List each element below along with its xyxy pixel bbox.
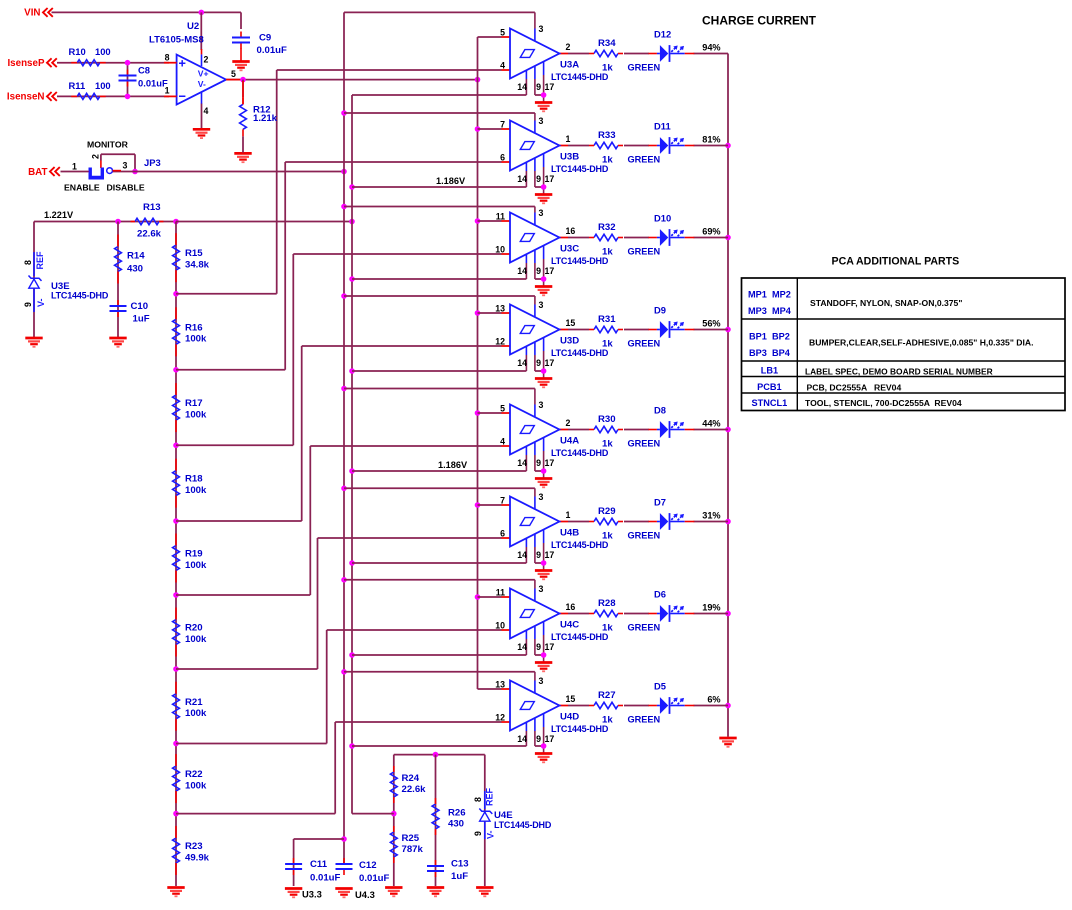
svg-text:LTC1445-DHD: LTC1445-DHD: [551, 256, 609, 266]
svg-text:9: 9: [23, 302, 33, 307]
svg-text:D7: D7: [654, 497, 666, 508]
svg-text:1: 1: [566, 134, 571, 144]
svg-text:V-: V-: [36, 298, 46, 307]
svg-text:R14: R14: [127, 251, 145, 262]
svg-text:R15: R15: [185, 248, 203, 259]
svg-text:1k: 1k: [602, 531, 613, 542]
svg-text:PCB, DC2555A REV04: PCB, DC2555A REV04: [807, 383, 902, 393]
svg-text:R27: R27: [598, 690, 616, 701]
svg-text:C8: C8: [138, 65, 150, 76]
svg-text:LTC1445-DHD: LTC1445-DHD: [51, 291, 109, 301]
svg-text:11: 11: [496, 588, 505, 598]
svg-text:DISABLE: DISABLE: [107, 183, 145, 193]
svg-text:V-: V-: [198, 79, 206, 89]
svg-text:R30: R30: [598, 414, 616, 425]
svg-text:GREEN: GREEN: [628, 439, 661, 449]
svg-text:ENABLE: ENABLE: [64, 183, 100, 193]
svg-text:GREEN: GREEN: [628, 63, 661, 73]
svg-text:R32: R32: [598, 222, 616, 233]
svg-text:2: 2: [566, 42, 571, 52]
svg-text:14: 14: [517, 174, 527, 184]
svg-text:C11: C11: [310, 859, 328, 870]
svg-text:1k: 1k: [602, 439, 613, 450]
svg-text:9: 9: [536, 642, 541, 652]
svg-text:11: 11: [496, 212, 505, 222]
svg-text:JP3: JP3: [144, 157, 161, 168]
svg-text:12: 12: [495, 713, 505, 723]
svg-text:44%: 44%: [702, 419, 720, 429]
svg-text:GREEN: GREEN: [628, 623, 661, 633]
svg-text:17: 17: [545, 550, 555, 560]
svg-text:GREEN: GREEN: [628, 715, 661, 725]
svg-text:9: 9: [473, 831, 483, 836]
svg-text:R23: R23: [185, 841, 203, 852]
svg-text:7: 7: [500, 120, 505, 130]
svg-text:R34: R34: [598, 38, 616, 49]
svg-text:100k: 100k: [185, 708, 207, 719]
svg-text:R21: R21: [185, 697, 203, 708]
svg-text:17: 17: [545, 734, 555, 744]
svg-text:U3A: U3A: [560, 60, 579, 71]
svg-text:14: 14: [517, 458, 527, 468]
svg-text:49.9k: 49.9k: [185, 852, 210, 863]
svg-text:8: 8: [165, 53, 170, 63]
svg-text:R31: R31: [598, 314, 616, 325]
svg-text:0.01uF: 0.01uF: [257, 45, 288, 56]
svg-text:5: 5: [500, 28, 505, 38]
svg-text:15: 15: [566, 318, 576, 328]
svg-text:6: 6: [500, 529, 505, 539]
svg-text:14: 14: [517, 358, 527, 368]
svg-text:100k: 100k: [185, 634, 207, 645]
svg-text:9: 9: [536, 734, 541, 744]
svg-text:4: 4: [204, 106, 209, 116]
svg-text:34.8k: 34.8k: [185, 259, 210, 270]
svg-text:1.221V: 1.221V: [44, 210, 74, 220]
svg-text:3: 3: [539, 208, 544, 218]
svg-text:100k: 100k: [185, 409, 207, 420]
svg-text:U4D: U4D: [560, 712, 579, 723]
svg-text:1uF: 1uF: [451, 871, 468, 882]
svg-text:LT6105-MS8: LT6105-MS8: [149, 35, 204, 46]
svg-text:R17: R17: [185, 398, 203, 409]
svg-text:R19: R19: [185, 549, 203, 560]
svg-text:0.01uF: 0.01uF: [310, 873, 341, 884]
svg-text:U4.3: U4.3: [355, 889, 375, 900]
svg-text:GREEN: GREEN: [628, 247, 661, 257]
svg-text:R25: R25: [402, 833, 420, 844]
svg-text:3: 3: [539, 676, 544, 686]
svg-text:D8: D8: [654, 405, 666, 416]
svg-text:1.186V: 1.186V: [438, 460, 468, 470]
svg-text:13: 13: [495, 304, 505, 314]
svg-text:94%: 94%: [702, 43, 720, 53]
svg-text:14: 14: [517, 82, 527, 92]
svg-text:BAT: BAT: [28, 167, 47, 178]
svg-text:6%: 6%: [707, 695, 720, 705]
svg-text:LTC1445-DHD: LTC1445-DHD: [551, 724, 609, 734]
svg-text:REF: REF: [35, 251, 45, 270]
svg-text:22.6k: 22.6k: [402, 784, 427, 795]
svg-text:9: 9: [536, 82, 541, 92]
svg-text:16: 16: [566, 602, 576, 612]
svg-text:9: 9: [536, 358, 541, 368]
svg-text:CHARGE CURRENT: CHARGE CURRENT: [702, 14, 817, 28]
svg-text:STANDOFF, NYLON, SNAP-ON,0.375: STANDOFF, NYLON, SNAP-ON,0.375": [810, 298, 962, 308]
svg-text:31%: 31%: [702, 511, 720, 521]
svg-text:1k: 1k: [602, 623, 613, 634]
svg-text:LTC1445-DHD: LTC1445-DHD: [551, 632, 609, 642]
svg-text:17: 17: [545, 358, 555, 368]
svg-text:C9: C9: [259, 33, 271, 44]
svg-text:U4B: U4B: [560, 528, 579, 539]
svg-text:0.01uF: 0.01uF: [359, 873, 390, 884]
svg-text:D10: D10: [654, 213, 671, 224]
svg-text:BP3 BP4: BP3 BP4: [749, 348, 791, 358]
svg-text:4: 4: [500, 61, 505, 71]
svg-text:1.21k: 1.21k: [253, 113, 278, 124]
svg-text:69%: 69%: [702, 227, 720, 237]
svg-text:IsenseN: IsenseN: [7, 92, 45, 103]
svg-text:3: 3: [539, 300, 544, 310]
svg-text:R24: R24: [402, 773, 420, 784]
svg-text:D12: D12: [654, 29, 671, 40]
svg-text:C13: C13: [451, 859, 469, 870]
svg-text:100k: 100k: [185, 780, 207, 791]
svg-text:15: 15: [566, 694, 576, 704]
svg-text:R18: R18: [185, 474, 203, 485]
svg-text:D9: D9: [654, 305, 666, 316]
svg-text:5: 5: [500, 404, 505, 414]
svg-text:10: 10: [495, 621, 505, 631]
svg-text:100k: 100k: [185, 485, 207, 496]
svg-text:1: 1: [566, 510, 571, 520]
svg-text:R22: R22: [185, 769, 203, 780]
svg-text:1k: 1k: [602, 715, 613, 726]
svg-text:14: 14: [517, 266, 527, 276]
svg-text:56%: 56%: [702, 319, 720, 329]
svg-text:100k: 100k: [185, 560, 207, 571]
svg-text:LTC1445-DHD: LTC1445-DHD: [494, 820, 552, 830]
svg-text:787k: 787k: [402, 844, 424, 855]
svg-text:17: 17: [545, 174, 555, 184]
svg-text:8: 8: [473, 797, 483, 802]
svg-text:V+: V+: [198, 69, 209, 79]
svg-text:U3D: U3D: [560, 336, 579, 347]
svg-text:1k: 1k: [602, 339, 613, 350]
svg-text:1: 1: [72, 162, 77, 172]
svg-text:IsenseP: IsenseP: [7, 58, 45, 69]
svg-text:R16: R16: [185, 322, 203, 333]
svg-text:0.01uF: 0.01uF: [138, 78, 168, 89]
svg-text:LTC1445-DHD: LTC1445-DHD: [551, 72, 609, 82]
svg-text:14: 14: [517, 550, 527, 560]
svg-text:GREEN: GREEN: [628, 155, 661, 165]
svg-text:R13: R13: [143, 202, 161, 213]
svg-text:1k: 1k: [602, 63, 613, 74]
svg-text:19%: 19%: [702, 603, 720, 613]
svg-text:STNCL1: STNCL1: [752, 398, 788, 408]
svg-text:22.6k: 22.6k: [137, 229, 162, 240]
svg-text:3: 3: [539, 400, 544, 410]
svg-text:9: 9: [536, 266, 541, 276]
svg-text:1.186V: 1.186V: [436, 176, 466, 186]
svg-text:C10: C10: [131, 301, 149, 312]
svg-text:LTC1445-DHD: LTC1445-DHD: [551, 448, 609, 458]
svg-text:C12: C12: [359, 860, 377, 871]
svg-text:6: 6: [500, 153, 505, 163]
svg-text:D6: D6: [654, 589, 666, 600]
svg-text:U3C: U3C: [560, 244, 579, 255]
svg-text:4: 4: [500, 437, 505, 447]
svg-text:81%: 81%: [702, 135, 720, 145]
svg-text:REF: REF: [485, 787, 495, 806]
svg-text:100: 100: [95, 46, 111, 57]
svg-text:R29: R29: [598, 506, 616, 517]
svg-text:VIN: VIN: [24, 8, 40, 19]
svg-text:R20: R20: [185, 623, 203, 634]
svg-text:100k: 100k: [185, 334, 207, 345]
svg-text:BP1 BP2: BP1 BP2: [749, 332, 790, 342]
svg-text:R11: R11: [69, 80, 86, 91]
svg-text:9: 9: [536, 550, 541, 560]
svg-text:2: 2: [204, 55, 209, 65]
svg-text:MONITOR: MONITOR: [87, 140, 129, 150]
svg-text:LABEL SPEC, DEMO BOARD SERIAL: LABEL SPEC, DEMO BOARD SERIAL NUMBER: [805, 367, 993, 377]
svg-text:9: 9: [536, 174, 541, 184]
svg-text:3: 3: [539, 116, 544, 126]
svg-text:MP1 MP2: MP1 MP2: [748, 290, 791, 300]
svg-text:LTC1445-DHD: LTC1445-DHD: [551, 540, 609, 550]
svg-text:D11: D11: [654, 121, 671, 132]
svg-text:LTC1445-DHD: LTC1445-DHD: [551, 348, 609, 358]
svg-text:17: 17: [545, 642, 555, 652]
svg-text:BUMPER,CLEAR,SELF-ADHESIVE,0.0: BUMPER,CLEAR,SELF-ADHESIVE,0.085" H,0.33…: [809, 338, 1033, 348]
svg-text:GREEN: GREEN: [628, 339, 661, 349]
svg-text:17: 17: [545, 82, 555, 92]
svg-text:3: 3: [123, 161, 128, 171]
svg-text:430: 430: [127, 264, 143, 275]
svg-text:U4A: U4A: [560, 436, 579, 447]
svg-text:D5: D5: [654, 681, 666, 692]
svg-text:5: 5: [231, 69, 236, 79]
svg-text:U2: U2: [187, 21, 199, 32]
svg-text:17: 17: [545, 458, 555, 468]
svg-text:R33: R33: [598, 130, 616, 141]
svg-text:2: 2: [91, 154, 101, 159]
svg-text:U4C: U4C: [560, 620, 579, 631]
svg-text:R26: R26: [448, 808, 466, 819]
svg-text:9: 9: [536, 458, 541, 468]
svg-text:U3B: U3B: [560, 152, 579, 163]
svg-text:1k: 1k: [602, 155, 613, 166]
svg-text:14: 14: [517, 642, 527, 652]
svg-text:GREEN: GREEN: [628, 531, 661, 541]
svg-text:R28: R28: [598, 598, 616, 609]
svg-text:7: 7: [500, 496, 505, 506]
svg-text:3: 3: [539, 584, 544, 594]
svg-text:TOOL, STENCIL, 700-DC2555A RE: TOOL, STENCIL, 700-DC2555A REV04: [805, 398, 962, 408]
svg-text:1k: 1k: [602, 247, 613, 258]
svg-text:13: 13: [495, 680, 505, 690]
svg-text:R10: R10: [69, 46, 86, 57]
svg-text:1uF: 1uF: [133, 314, 150, 325]
svg-text:14: 14: [517, 734, 527, 744]
svg-text:PCA ADDITIONAL PARTS: PCA ADDITIONAL PARTS: [832, 256, 960, 268]
svg-text:2: 2: [566, 418, 571, 428]
svg-text:LB1: LB1: [761, 366, 778, 376]
svg-text:12: 12: [495, 337, 505, 347]
svg-text:U3.3: U3.3: [302, 889, 322, 900]
svg-text:MP3 MP4: MP3 MP4: [748, 306, 792, 316]
svg-text:8: 8: [23, 260, 33, 265]
svg-text:V-: V-: [486, 830, 496, 839]
svg-text:17: 17: [545, 266, 555, 276]
svg-text:16: 16: [566, 226, 576, 236]
svg-text:LTC1445-DHD: LTC1445-DHD: [551, 164, 609, 174]
svg-text:10: 10: [495, 245, 505, 255]
svg-text:430: 430: [448, 819, 464, 830]
svg-text:PCB1: PCB1: [757, 382, 782, 392]
svg-text:100: 100: [95, 80, 111, 91]
svg-text:3: 3: [539, 24, 544, 34]
svg-text:3: 3: [539, 492, 544, 502]
